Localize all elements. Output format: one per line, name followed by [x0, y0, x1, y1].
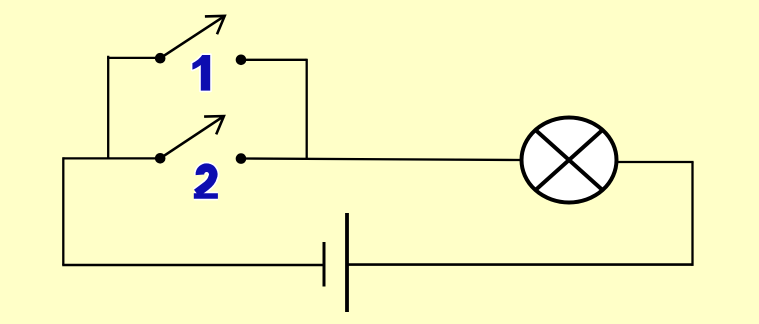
battery B1 [324, 213, 347, 312]
wire: switch 2 right horizontal to lamp [241, 159, 522, 161]
lamp circle [522, 118, 617, 203]
wire: middle vertical joining switch 1 to switch 2 line [306, 59, 308, 159]
lamp L1 [522, 118, 617, 203]
wire: switch 2 left horizontal [63, 157, 160, 159]
battery long plate (positive) [345, 213, 349, 312]
wire: right vertical [691, 162, 693, 266]
switch S2 arrowhead [204, 116, 224, 134]
switch S1 arrowhead [205, 16, 225, 34]
wire: switch 1 left horizontal [107, 57, 160, 59]
switch S1 lever [160, 16, 225, 58]
switch S2 [155, 116, 246, 164]
switch S2 left contact dot [155, 153, 166, 164]
switch S2 right contact dot [236, 153, 247, 164]
label 1 [192, 55, 210, 91]
wire: lamp right horizontal [617, 161, 694, 163]
wire: bottom right horizontal from battery [347, 263, 693, 266]
wire: inner left vertical (switch 1 branch) [107, 56, 109, 159]
lamp cross line 1 [535, 130, 602, 190]
switch S1 left contact dot [155, 53, 166, 64]
wire: bottom left horizontal to battery [62, 264, 324, 267]
label 2 [194, 168, 218, 196]
wire: switch 1 right horizontal [241, 59, 307, 61]
switch S1 right contact dot [236, 55, 247, 66]
switch S2 lever [160, 116, 224, 158]
battery short plate (negative) [323, 242, 326, 287]
lamp cross line 2 [535, 130, 602, 190]
wire: outer left vertical [62, 157, 64, 265]
switch S1 [155, 16, 246, 65]
